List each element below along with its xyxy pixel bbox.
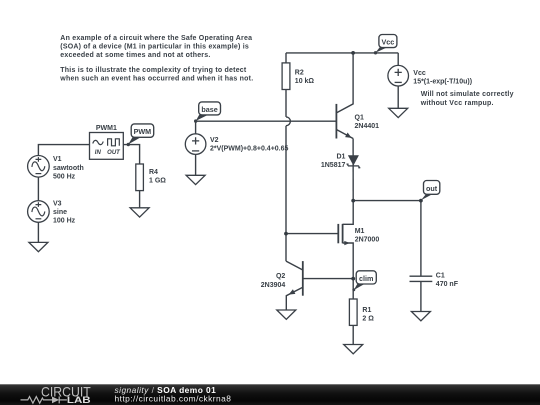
svg-text:without Vcc rampup.: without Vcc rampup. xyxy=(420,100,494,107)
svg-text:exceeded at some times and not: exceeded at some times and not at others… xyxy=(60,52,210,59)
svg-text:470 nF: 470 nF xyxy=(436,281,459,288)
svg-text:2N7000: 2N7000 xyxy=(355,237,380,244)
svg-text:base: base xyxy=(201,105,217,114)
svg-text:sine: sine xyxy=(53,209,67,216)
svg-text:Vcc: Vcc xyxy=(382,38,395,47)
svg-text:15*(1-exp(-T/10u)): 15*(1-exp(-T/10u)) xyxy=(413,79,472,86)
svg-text:PWM1: PWM1 xyxy=(96,125,117,132)
svg-text:http://circuitlab.com/ckkrna8: http://circuitlab.com/ckkrna8 xyxy=(115,393,232,403)
svg-text:This is to illustrate the comp: This is to illustrate the complexity of … xyxy=(60,67,247,74)
svg-text:V3: V3 xyxy=(53,201,62,208)
svg-text:500 Hz: 500 Hz xyxy=(53,173,76,180)
svg-text:10 kΩ: 10 kΩ xyxy=(295,78,315,85)
svg-text:(SOA) of a device (M1 in parti: (SOA) of a device (M1 in particular in t… xyxy=(60,44,249,51)
svg-text:C1: C1 xyxy=(436,272,445,279)
svg-text:OUT: OUT xyxy=(107,150,121,156)
svg-text:PWM: PWM xyxy=(134,127,152,136)
svg-text:R2: R2 xyxy=(295,70,304,77)
svg-text:out: out xyxy=(426,184,438,193)
svg-text:2 Ω: 2 Ω xyxy=(362,316,374,323)
svg-text:D1: D1 xyxy=(336,154,345,161)
svg-text:sawtooth: sawtooth xyxy=(53,165,84,172)
svg-text:IN: IN xyxy=(95,150,102,156)
svg-text:when such an event has occurre: when such an event has occurred and when… xyxy=(59,75,253,82)
svg-text:100 Hz: 100 Hz xyxy=(53,218,76,225)
svg-text:1 GΩ: 1 GΩ xyxy=(149,178,166,185)
svg-text:R1: R1 xyxy=(362,307,371,314)
svg-text:Vcc: Vcc xyxy=(413,70,426,77)
svg-text:Q1: Q1 xyxy=(355,114,364,121)
svg-text:V1: V1 xyxy=(53,156,62,163)
svg-text:M1: M1 xyxy=(355,228,365,235)
svg-text:2*V(PWM)+0.8+0.4+0.65: 2*V(PWM)+0.8+0.4+0.65 xyxy=(210,146,289,153)
svg-text:clim: clim xyxy=(359,274,373,283)
svg-text:Will not simulate correctly: Will not simulate correctly xyxy=(421,91,514,98)
svg-text:2N4401: 2N4401 xyxy=(355,123,380,130)
svg-text:V2: V2 xyxy=(210,137,219,144)
svg-text:Q2: Q2 xyxy=(276,273,285,280)
svg-text:1N5817: 1N5817 xyxy=(321,162,346,169)
svg-text:An example of a circuit where: An example of a circuit where the Safe O… xyxy=(60,35,252,42)
svg-text:2N3904: 2N3904 xyxy=(261,282,286,289)
svg-text:LAB: LAB xyxy=(67,395,91,405)
svg-text:R4: R4 xyxy=(149,169,158,176)
